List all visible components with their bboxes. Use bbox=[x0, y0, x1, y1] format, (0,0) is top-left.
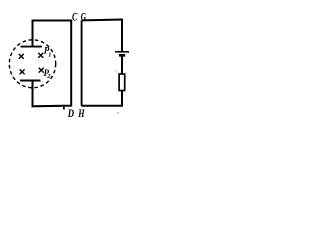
svg-text:1: 1 bbox=[48, 51, 51, 58]
svg-text:D: D bbox=[67, 106, 74, 120]
svg-text:G: G bbox=[81, 9, 87, 23]
svg-text:2: 2 bbox=[46, 73, 51, 80]
svg-text:H: H bbox=[78, 106, 85, 120]
svg-text:C: C bbox=[72, 9, 78, 23]
